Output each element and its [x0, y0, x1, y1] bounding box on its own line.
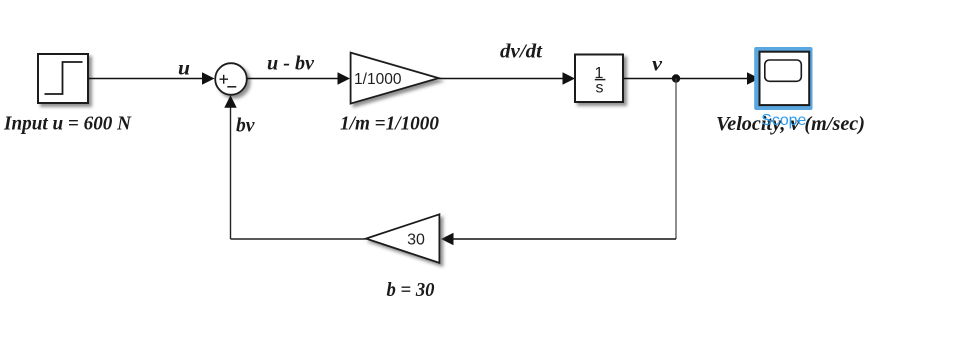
svg-text:bv: bv — [236, 115, 256, 137]
svg-text:Scope: Scope — [761, 112, 806, 129]
wire feedback up to sum — [230, 107, 232, 239]
wire feedback horizontal left segment — [231, 238, 367, 240]
gain block 1/1000 — [351, 53, 439, 104]
arrowhead into scope — [747, 72, 760, 84]
step waveform inside step block — [45, 62, 83, 94]
wire integrator to scope — [623, 78, 748, 80]
feedback gain block 30 — [366, 214, 439, 263]
wire step to sum — [89, 78, 204, 80]
svg-text:b = 30: b = 30 — [387, 279, 435, 301]
scope screen — [765, 60, 802, 81]
svg-text:1/m =1/1000: 1/m =1/1000 — [340, 113, 439, 135]
svg-text:30: 30 — [407, 232, 425, 249]
arrowhead into integrator — [563, 72, 576, 84]
branch node dot — [672, 74, 680, 82]
summing junction — [215, 63, 247, 95]
wire feedback horizontal right segment — [454, 238, 677, 240]
wire sum to gain 1/1000 — [247, 78, 339, 80]
arrowhead into gain — [338, 72, 351, 84]
svg-text:u - bv: u - bv — [267, 53, 315, 75]
step source block (Input u = 600 N) — [38, 54, 88, 103]
svg-text:1/1000: 1/1000 — [354, 71, 402, 88]
scope selection highlight — [754, 47, 812, 110]
minus sign (bottom input) — [227, 86, 236, 88]
scope block — [760, 52, 810, 105]
svg-text:dv/dt: dv/dt — [500, 41, 544, 63]
fraction bar — [595, 79, 606, 81]
wire gain to integrator — [439, 78, 564, 80]
arrowhead into sum (bottom port) — [224, 95, 236, 108]
svg-text:s: s — [596, 80, 604, 97]
svg-text:v: v — [652, 54, 663, 76]
arrowhead into feedback gain — [441, 233, 454, 245]
svg-text:u: u — [178, 58, 190, 80]
plus sign (left input) — [220, 75, 229, 84]
arrowhead into sum (left port) — [202, 72, 215, 84]
svg-text:Input u = 600 N: Input u = 600 N — [3, 113, 132, 135]
wire node down (feedback) — [675, 79, 677, 240]
integrator block 1/s — [575, 55, 623, 103]
